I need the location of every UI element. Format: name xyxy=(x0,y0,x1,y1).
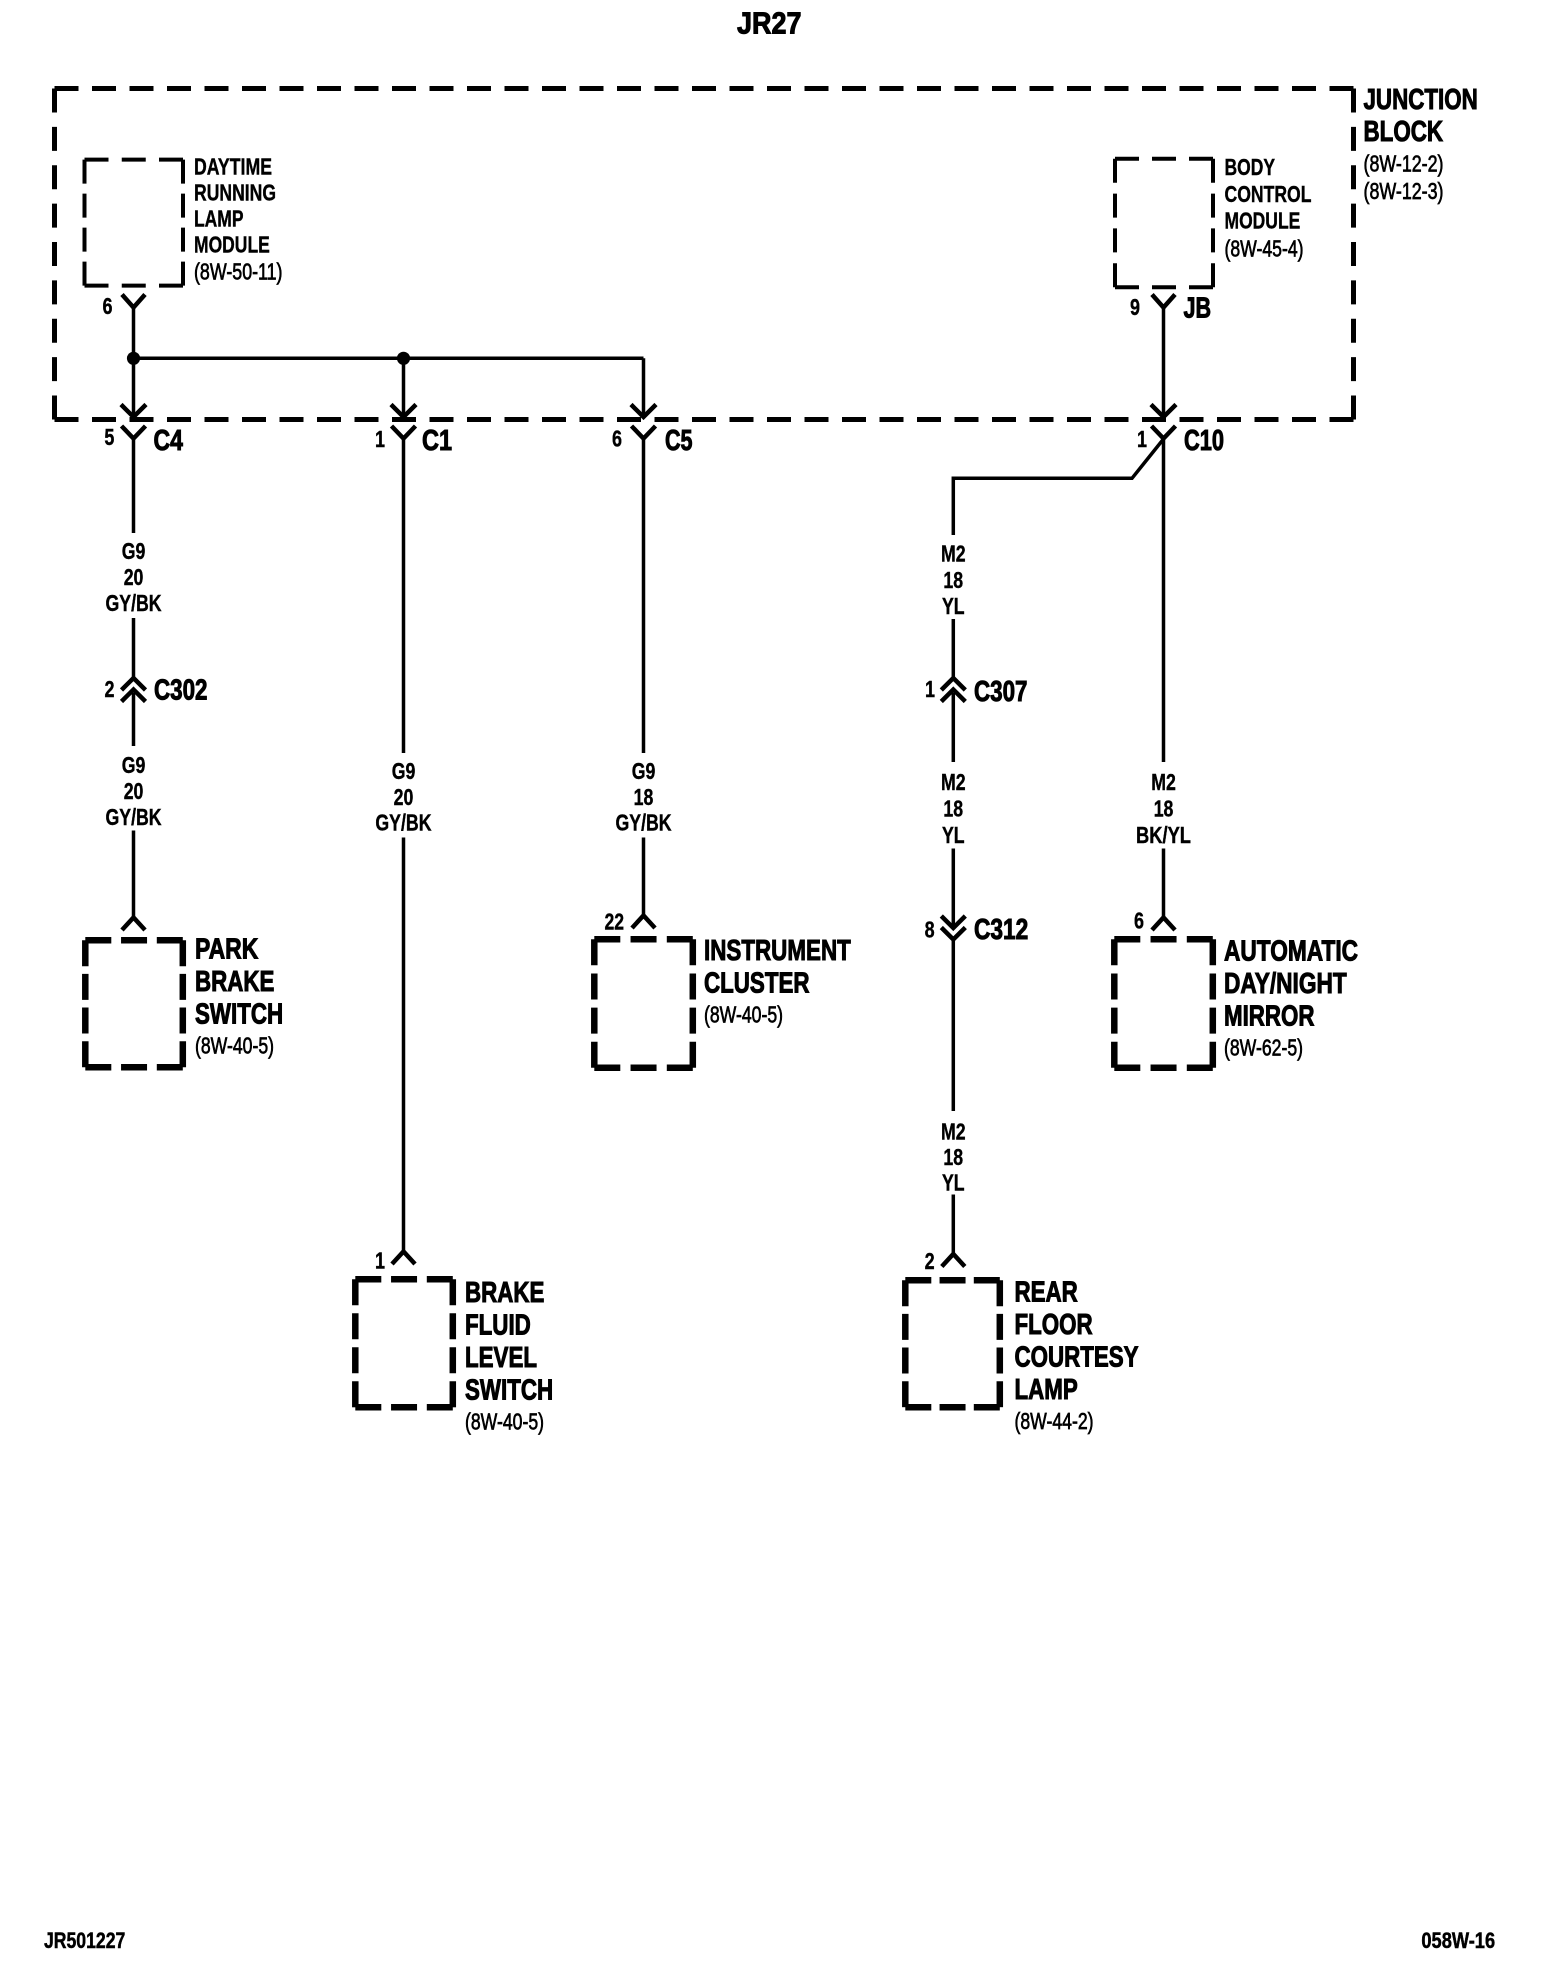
svg-text:C312: C312 xyxy=(974,914,1028,946)
svg-text:6: 6 xyxy=(103,293,113,319)
svg-text:LAMP: LAMP xyxy=(194,205,244,231)
svg-text:1: 1 xyxy=(375,1247,385,1273)
svg-text:COURTESY: COURTESY xyxy=(1015,1342,1139,1374)
svg-text:18: 18 xyxy=(943,1144,963,1170)
svg-text:(8W-40-5): (8W-40-5) xyxy=(465,1408,544,1434)
svg-text:G9: G9 xyxy=(392,758,416,784)
svg-text:(8W-12-2): (8W-12-2) xyxy=(1364,150,1444,176)
svg-text:C10: C10 xyxy=(1184,425,1224,457)
svg-text:20: 20 xyxy=(394,784,414,810)
svg-text:8: 8 xyxy=(925,916,935,942)
svg-text:SWITCH: SWITCH xyxy=(195,999,283,1031)
svg-text:M2: M2 xyxy=(941,540,966,566)
svg-text:CLUSTER: CLUSTER xyxy=(704,968,810,1000)
svg-text:(8W-12-3): (8W-12-3) xyxy=(1364,178,1444,204)
svg-text:YL: YL xyxy=(942,593,965,619)
svg-text:GY/BK: GY/BK xyxy=(106,590,162,616)
svg-text:RUNNING: RUNNING xyxy=(194,179,276,205)
svg-text:C307: C307 xyxy=(974,676,1028,708)
svg-text:20: 20 xyxy=(124,778,144,804)
svg-text:REAR: REAR xyxy=(1015,1277,1078,1309)
svg-text:BODY: BODY xyxy=(1225,154,1276,180)
svg-text:G9: G9 xyxy=(122,538,146,564)
svg-text:JR27: JR27 xyxy=(737,6,802,41)
svg-text:INSTRUMENT: INSTRUMENT xyxy=(704,935,851,967)
svg-text:BRAKE: BRAKE xyxy=(195,966,274,998)
svg-text:AUTOMATIC: AUTOMATIC xyxy=(1224,936,1358,968)
svg-text:CONTROL: CONTROL xyxy=(1225,181,1312,207)
svg-text:1: 1 xyxy=(375,426,385,452)
svg-text:(8W-45-4): (8W-45-4) xyxy=(1225,235,1304,261)
svg-text:(8W-44-2): (8W-44-2) xyxy=(1015,1408,1094,1434)
svg-text:FLUID: FLUID xyxy=(465,1310,531,1342)
svg-text:058W-16: 058W-16 xyxy=(1421,1928,1495,1953)
svg-text:YL: YL xyxy=(942,822,965,848)
svg-text:2: 2 xyxy=(105,676,115,702)
svg-text:C1: C1 xyxy=(422,425,452,457)
svg-text:SWITCH: SWITCH xyxy=(465,1375,553,1407)
svg-text:18: 18 xyxy=(943,567,963,593)
svg-text:G9: G9 xyxy=(632,758,656,784)
svg-text:C5: C5 xyxy=(665,425,693,457)
svg-text:LAMP: LAMP xyxy=(1015,1374,1078,1406)
svg-text:JR501227: JR501227 xyxy=(44,1928,125,1953)
svg-text:C4: C4 xyxy=(154,425,183,457)
svg-text:GY/BK: GY/BK xyxy=(106,804,162,830)
svg-text:18: 18 xyxy=(943,795,963,821)
svg-text:GY/BK: GY/BK xyxy=(616,809,672,835)
svg-text:YL: YL xyxy=(942,1169,965,1195)
svg-text:18: 18 xyxy=(634,784,654,810)
svg-text:22: 22 xyxy=(605,908,625,934)
svg-text:20: 20 xyxy=(124,564,144,590)
svg-text:LEVEL: LEVEL xyxy=(465,1342,537,1374)
svg-text:(8W-40-5): (8W-40-5) xyxy=(704,1001,783,1027)
svg-text:PARK: PARK xyxy=(195,934,258,966)
svg-text:6: 6 xyxy=(1134,907,1144,933)
svg-text:(8W-50-11): (8W-50-11) xyxy=(194,258,283,284)
svg-text:MODULE: MODULE xyxy=(1225,207,1301,233)
svg-text:MODULE: MODULE xyxy=(194,231,270,257)
svg-text:2: 2 xyxy=(925,1248,935,1274)
svg-text:DAYTIME: DAYTIME xyxy=(194,153,272,179)
svg-text:9: 9 xyxy=(1130,294,1140,320)
svg-text:BK/YL: BK/YL xyxy=(1136,822,1191,848)
svg-text:FLOOR: FLOOR xyxy=(1015,1309,1093,1341)
svg-text:G9: G9 xyxy=(122,752,146,778)
svg-text:6: 6 xyxy=(612,425,622,451)
svg-text:(8W-40-5): (8W-40-5) xyxy=(195,1032,274,1058)
svg-text:(8W-62-5): (8W-62-5) xyxy=(1224,1034,1303,1060)
svg-text:M2: M2 xyxy=(1151,769,1176,795)
svg-text:BRAKE: BRAKE xyxy=(465,1277,544,1309)
svg-text:BLOCK: BLOCK xyxy=(1364,116,1444,148)
svg-text:GY/BK: GY/BK xyxy=(375,809,431,835)
svg-text:5: 5 xyxy=(104,424,114,450)
svg-text:C302: C302 xyxy=(154,675,208,707)
svg-text:JUNCTION: JUNCTION xyxy=(1364,84,1478,116)
svg-text:JB: JB xyxy=(1184,293,1212,325)
svg-text:1: 1 xyxy=(1137,426,1147,452)
svg-text:DAY/NIGHT: DAY/NIGHT xyxy=(1224,968,1347,1000)
svg-text:MIRROR: MIRROR xyxy=(1224,1001,1315,1033)
svg-text:M2: M2 xyxy=(941,769,966,795)
svg-text:M2: M2 xyxy=(941,1118,966,1144)
svg-text:1: 1 xyxy=(925,676,935,702)
svg-text:18: 18 xyxy=(1154,795,1174,821)
